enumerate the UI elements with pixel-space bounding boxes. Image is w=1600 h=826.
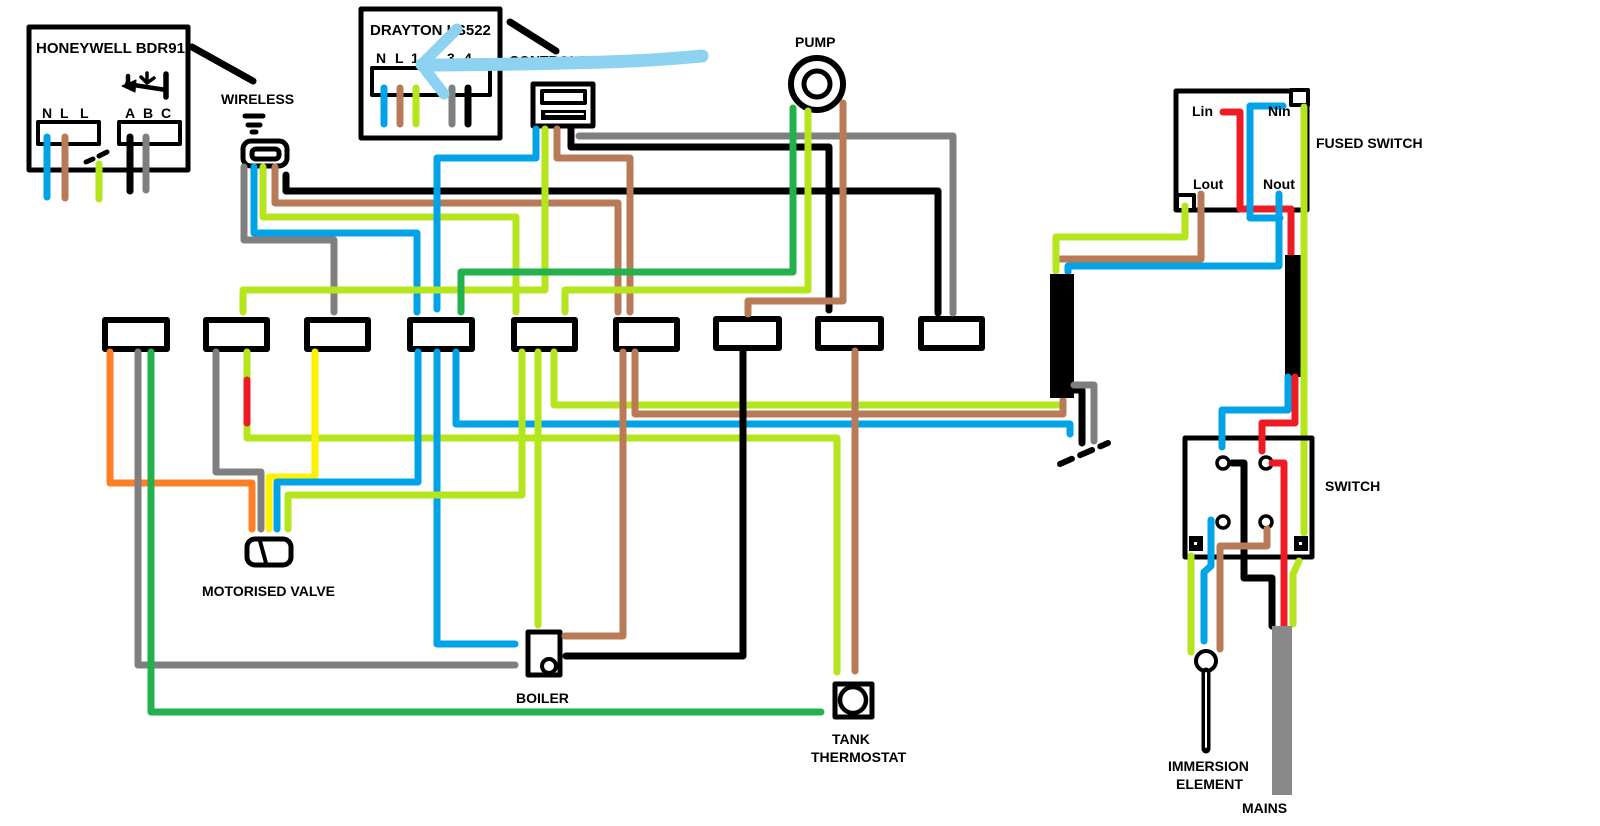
wire black block7 to boiler (566, 351, 743, 656)
svg-text:BOILER: BOILER (516, 690, 569, 706)
wire gray honeywell B (143, 137, 150, 190)
wire lime from programmer to block 2 (243, 129, 545, 312)
switch box (1185, 438, 1312, 557)
wire lime from pump to block 5 (565, 111, 808, 312)
dashed wire below left bar (1060, 443, 1108, 464)
wire yellow block3 to valve (269, 352, 315, 529)
wire gray below left bar (1074, 385, 1094, 441)
wire gray block1 to boiler (138, 352, 515, 665)
svg-text:A: A (125, 105, 135, 121)
wire gray block2 to valve (216, 352, 261, 529)
svg-text:Lin: Lin (1192, 103, 1213, 119)
wire blue from programmer ending above block 4 (437, 129, 536, 309)
wire lime fused switch to switch and mains (1301, 107, 1308, 533)
svg-text:WIRELESS: WIRELESS (221, 91, 294, 107)
wireless icon antenna bars (245, 114, 263, 119)
wire brown honeywell L (62, 137, 69, 198)
wire lime switch to immersion (1188, 556, 1195, 652)
terminal block 5 (514, 320, 575, 349)
wire blue block4 to boiler (437, 352, 515, 644)
terminal block 7 (716, 319, 779, 348)
tank thermostat box (835, 684, 872, 717)
wire black from wireless to block 9 (286, 175, 938, 313)
wire brown from wireless to block 6 (275, 167, 618, 312)
fused switch corner square bottom left (1177, 195, 1194, 210)
svg-text:N: N (376, 50, 386, 66)
drayton LS522 box (361, 9, 500, 138)
wire red switch to mains (1272, 463, 1284, 626)
terminal block 3 (307, 320, 368, 349)
svg-text:HONEYWELL BDR91: HONEYWELL BDR91 (36, 40, 185, 57)
honeywell NLL terminal rect (38, 122, 99, 144)
wire lime block5 to boiler (535, 352, 542, 625)
svg-text:N: N (42, 105, 52, 121)
svg-text:TANK: TANK (832, 731, 870, 747)
wire brown switch to immersion (1220, 529, 1267, 649)
wireless icon body (243, 141, 287, 166)
junction bar left (1050, 274, 1074, 398)
motorised valve icon (247, 539, 291, 565)
svg-text:DRAYTON LS522: DRAYTON LS522 (370, 22, 491, 39)
svg-text:ELEMENT: ELEMENT (1176, 776, 1243, 792)
wire gray from programmer to block 9 (579, 136, 953, 313)
light blue arrow (424, 56, 702, 65)
fused switch box (1176, 91, 1307, 210)
wire gray from wireless to block 3 (244, 167, 334, 312)
svg-text:THERMOSTAT: THERMOSTAT (811, 749, 907, 765)
svg-text:MOTORISED VALVE: MOTORISED VALVE (202, 583, 335, 599)
terminal block 1 (105, 320, 167, 349)
wire blue honeywell N (44, 137, 51, 197)
wire brown from programmer to block 6 (557, 129, 630, 312)
wire brown Lout to left bar (1060, 194, 1201, 259)
immersion element (1196, 651, 1216, 671)
wire blue block4 to junction bar (456, 352, 1070, 434)
wire green from pump to block 4 (461, 108, 793, 312)
wire blue drayton terminal N (381, 88, 388, 124)
svg-text:SWITCH: SWITCH (1325, 478, 1380, 494)
wire red right bar to switch (1262, 377, 1295, 451)
wire blue from wireless to block 4 (254, 167, 417, 312)
wire lime block2 to tank thermostat (247, 352, 837, 672)
wire lime honeywell (96, 164, 103, 199)
switch terminal circle bottom left (1217, 516, 1229, 528)
wire blue block4 to valve (277, 352, 418, 529)
terminal block 2 (206, 320, 267, 349)
terminal block 8 (818, 319, 881, 348)
svg-text:FUSED SWITCH: FUSED SWITCH (1316, 135, 1423, 151)
wire brown block8 to tank thermostat (852, 351, 859, 671)
wire black drayton terminal 4 (465, 88, 472, 124)
honeywell ABC terminal rect (119, 122, 180, 144)
wire brown block6 to junction bar (635, 352, 1063, 414)
wire brown from pump to block 7 (748, 103, 843, 314)
wire black from programmer to block 8 (571, 129, 829, 310)
junction bar right (1285, 255, 1307, 377)
svg-text:B: B (143, 105, 153, 121)
switch terminal circle top left (1217, 457, 1229, 469)
terminal block 6 (616, 320, 677, 349)
svg-text:Nout: Nout (1263, 176, 1295, 192)
svg-text:L: L (395, 50, 404, 66)
pump icon (791, 58, 843, 110)
wire red Lin to right bar (1223, 112, 1291, 258)
dashed link honeywell (86, 152, 107, 162)
svg-text:C: C (161, 105, 171, 121)
wire gray drayton terminal 3 (449, 88, 456, 124)
switch side square right (1294, 536, 1308, 551)
svg-text:Lout: Lout (1193, 176, 1224, 192)
wire lime from wireless to block 5 (263, 167, 516, 312)
pointer honeywell to wireless (192, 47, 253, 81)
svg-text:PUMP: PUMP (795, 34, 835, 50)
wire blue switch to immersion (1204, 520, 1211, 641)
svg-text:IMMERSION: IMMERSION (1168, 758, 1249, 774)
wire brown drayton terminal L (397, 88, 404, 124)
svg-text:Nin: Nin (1268, 103, 1291, 119)
mains cable gray (1272, 626, 1292, 795)
svg-text:L: L (60, 105, 69, 121)
wire blue Nout to left bar (1068, 194, 1279, 272)
fused switch corner square top right (1291, 90, 1308, 105)
wire lime switch to mains (1293, 561, 1299, 624)
wire blue Nin (1250, 106, 1283, 218)
wire brown block6 to boiler (565, 352, 623, 636)
wire lime block5 to junction bar (554, 352, 1058, 405)
switch terminal circle bottom right (1260, 516, 1272, 528)
terminal block 4 (410, 320, 472, 349)
programmer icon (533, 84, 593, 126)
wire black below left bar (1075, 390, 1082, 443)
honeywell antenna icon (127, 84, 166, 90)
red sleeve on lime wire (244, 380, 251, 423)
wire black honeywell A (127, 137, 134, 191)
terminal block 9 (921, 319, 982, 348)
wire orange block1 to valve (110, 352, 252, 529)
drayton terminal rect (372, 68, 490, 95)
wire lime block5 to valve (288, 352, 522, 529)
switch terminal circle top right (1260, 457, 1272, 469)
wire blue right bar to switch (1222, 377, 1288, 447)
wire lime fused switch to left bar (1056, 206, 1185, 271)
wire lime drayton terminal 1 (413, 88, 420, 124)
wire green block1 to tank stat (151, 352, 821, 712)
honeywell BDR91 box (29, 27, 188, 170)
svg-text:L: L (80, 105, 89, 121)
svg-text:MAINS: MAINS (1242, 800, 1287, 816)
boiler box (528, 632, 560, 675)
pointer drayton to controls (510, 22, 556, 51)
switch side square left (1189, 536, 1203, 551)
wire black switch to mains (1232, 463, 1272, 626)
